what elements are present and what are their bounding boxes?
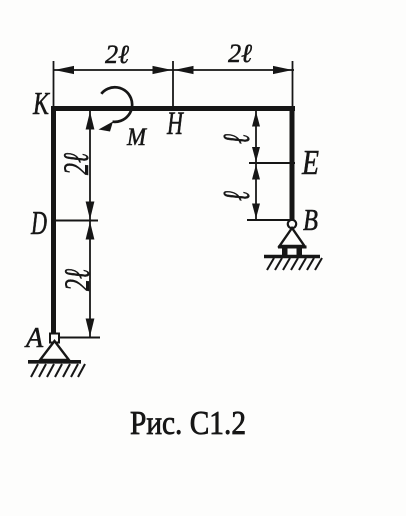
node label E [301,143,319,182]
member K to A (left vertical) [51,106,56,336]
arrow pointing left at H tick [174,66,194,74]
label 2l (K-D span, rotated) [56,153,96,175]
arrow down to B tick [252,204,260,219]
caption Рис. С1.2 [130,405,246,442]
svg-text:2ℓ: 2ℓ [57,269,97,291]
svg-text:M: M [126,124,147,151]
svg-text:ℓ: ℓ [216,134,258,144]
node label B [303,202,318,237]
support B rollers [282,248,302,257]
arrow down to E tick [252,147,260,162]
label 2l (D-A span, rotated) [57,269,97,291]
node label D [30,205,47,242]
left dimension line K-D-A [89,111,91,338]
extension line above right end [292,61,294,106]
svg-text:2ℓ: 2ℓ [228,39,252,68]
arrow up to D tick (lower segment) [86,222,95,240]
tick at D [56,220,98,222]
arrow down to A tick [86,319,95,337]
support B ground line [264,255,320,259]
svg-text:2ℓ: 2ℓ [56,153,96,175]
member K to right end (top horizontal bar) [51,106,295,111]
label 2l (top right span) [228,39,252,68]
support B triangle [280,228,305,246]
label 2l (top left span) [105,40,129,69]
label l (E-B span, rotated) [216,191,258,201]
arrow up to E tick (lower) [252,165,260,180]
svg-text:A: A [24,323,44,354]
top dimension line [54,69,295,71]
label l (bar-E span, rotated) [216,134,258,144]
svg-text:D: D [30,205,47,242]
support A triangle [40,341,69,360]
arrow up to bar (left dim) [86,112,95,130]
support A pin [50,334,59,343]
node label H [166,106,184,142]
tick at B [247,219,292,221]
support A ground line [28,360,81,364]
svg-text:Рис. С1.2: Рис. С1.2 [130,405,246,442]
svg-text:K: K [32,85,50,121]
arrow up to bar (right dim) [252,112,260,127]
arrow pointing right at H tick [153,66,173,74]
svg-text:2ℓ: 2ℓ [105,40,129,69]
arrow down to D tick [86,202,95,220]
svg-text:H: H [166,106,184,142]
extension line above K [53,61,55,106]
tick at E [249,162,295,164]
support B pin [288,220,296,228]
support B hatching [267,258,322,270]
support A hatching [31,364,85,377]
extension line above H [172,61,174,106]
svg-text:E: E [301,143,319,182]
node label K [32,85,50,121]
arrow left end of top dimension [55,66,75,74]
member right end to B (right vertical) [290,106,295,220]
moment M arc [99,87,133,131]
support B base bar [278,246,307,249]
right dimension line bar-E-B [255,111,257,220]
tick at A [57,337,100,339]
svg-text:B: B [303,202,318,237]
arrow right end of top dimension [273,66,293,74]
node label A [24,323,44,354]
svg-text:ℓ: ℓ [216,191,258,201]
moment label M [126,124,147,151]
